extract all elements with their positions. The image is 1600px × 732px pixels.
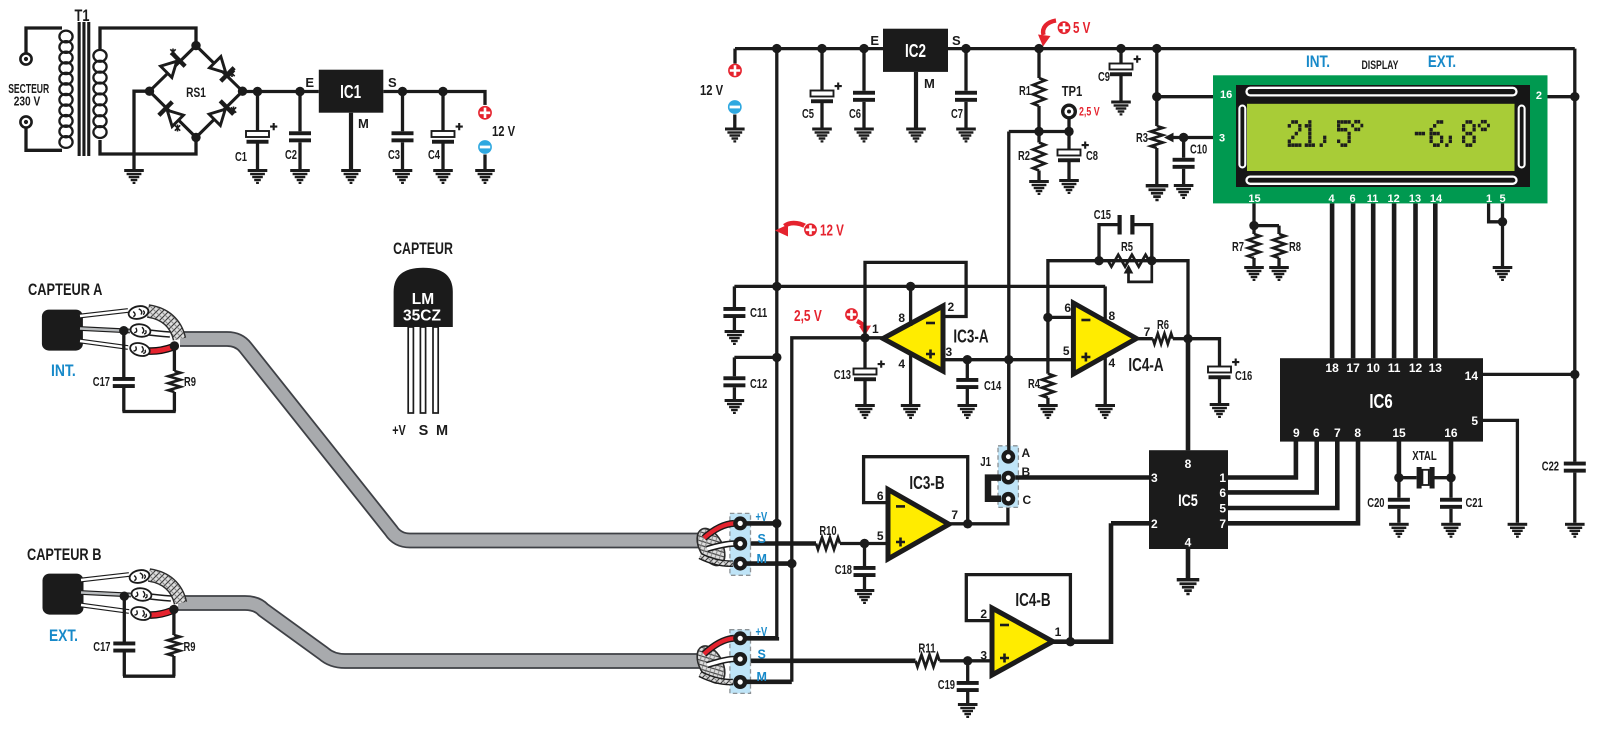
ground C18 [855,589,875,604]
jumper J1 block [998,446,1018,508]
ground C5 [812,128,832,143]
svg-text:C18: C18 [835,563,852,577]
wire terminal A M to M rail [740,561,792,566]
symbol +12V input [728,63,743,78]
svg-text:RS1: RS1 [186,85,206,100]
ground C8 [1059,179,1079,194]
wire terminal A +V to 12V rail [740,521,777,526]
wire C12 branch [734,356,776,359]
resistor R4 [1046,317,1049,373]
node R1 bottom [1034,127,1043,136]
svg-text:IC6: IC6 [1369,391,1392,413]
wire terminal B M to M rail [740,679,792,684]
cable sensor A [180,339,704,541]
wire top rail E-side [735,47,883,50]
capacitor C17 A [122,331,125,377]
svg-text:C17: C17 [93,375,110,389]
wire DC rail S-side [383,92,485,106]
ground R2 [1029,180,1049,195]
symbol plus 5V callout [1057,21,1071,35]
svg-text:M: M [436,423,448,439]
svg-text:J1: J1 [980,454,991,469]
svg-text:3: 3 [1219,133,1225,145]
ground C2 [290,169,310,184]
ground R3 [1146,184,1169,201]
svg-text:EXT.: EXT. [49,626,78,645]
svg-text:XTAL: XTAL [1412,449,1437,463]
svg-text:INT.: INT. [1306,53,1330,71]
svg-text:12 V: 12 V [820,223,844,240]
node C5 [817,44,826,53]
svg-text:1: 1 [1055,625,1062,639]
sensor A body [42,310,83,351]
node 12V branch [772,44,781,53]
svg-text:CAPTEUR B: CAPTEUR B [27,545,101,564]
ground C16 [1210,403,1230,418]
wire LCD pin14 to IC6 pin13 [1433,203,1438,358]
wire 2.5V reference line pin3-pin5 [943,358,1073,361]
wire top rail 5V side [948,47,1575,50]
wire J1-A from 2.5V [1007,360,1010,451]
cable A end shield braid [691,524,730,570]
cable B end shield braid [691,641,730,687]
wire IC3-B feedback loop [864,457,968,524]
J1 contact B [1001,471,1015,485]
wire LCD pin13 to IC6 pin12 [1413,203,1418,358]
sensor A wire red [148,347,173,351]
capacitor C20 [1397,478,1400,498]
node C9 [1116,44,1125,53]
sensor A leads [80,311,130,348]
resistor R2 [1037,132,1040,143]
wire IC4-A pin8 [1104,286,1107,322]
ground C9 [1111,101,1131,116]
svg-text:R4: R4 [1028,377,1040,391]
ground R7 [1244,266,1264,281]
wire sensor A signal line [747,541,816,546]
terminal A contact S [733,537,747,551]
svg-text:11: 11 [1388,361,1401,375]
wire IC5 pin2 [1111,521,1149,526]
sensor B leads [81,575,131,612]
capacitor C19 [966,661,969,681]
wire LCD pin12 to IC6 pin11 [1392,203,1397,358]
wire opamp V+ rail [734,285,1105,288]
svg-text:C9: C9 [1098,70,1110,84]
node C4 [438,87,447,96]
terminal mains bottom [20,116,31,127]
callout arrow 5V [1038,21,1056,47]
svg-text:E: E [305,75,314,90]
LCD reading 21,5 degrees [1288,120,1364,147]
svg-text:R1: R1 [1019,84,1031,98]
svg-text:C7: C7 [951,107,963,121]
regulator IC1 [319,70,384,113]
sensor A wire knots [127,304,151,358]
label LM 35CZ [403,291,441,325]
capacitor C7 [964,49,967,91]
ground 12V input [725,128,745,143]
op-amp IC3-B [888,489,949,559]
wire 12V minus to ground [483,155,486,170]
svg-text:M: M [757,670,767,684]
capacitor C2 [298,92,301,132]
terminal B contact +V [733,631,747,645]
svg-text:IC5: IC5 [1178,491,1198,510]
cable A wire to S [707,544,734,549]
svg-text:8: 8 [1354,426,1361,440]
node IC4-B output [1066,637,1075,646]
svg-text:16: 16 [1444,426,1458,440]
svg-text:IC4-B: IC4-B [1015,590,1050,610]
wire DC rail E-side [243,90,319,93]
wire IC6 pin5 to ground [1483,420,1517,522]
svg-text:S: S [419,423,429,439]
ground C4 [433,169,453,184]
wire IC5 pin1 to IC6 pin9 [1228,441,1296,477]
op-amp IC4-B [992,608,1053,675]
svg-text:5: 5 [1063,344,1070,358]
LM35CZ pins [408,327,438,413]
node bridge bottom [191,133,200,142]
svg-text:3: 3 [1151,471,1158,485]
svg-text:C10: C10 [1190,143,1207,157]
wire IC2 M [914,72,918,128]
wire 5V down to LCD pin16 [1155,49,1158,97]
ground C11 [725,330,745,345]
capacitor C16 [1208,359,1239,380]
svg-text:IC2: IC2 [905,41,926,61]
node R4 on pin6 stub [1043,313,1052,322]
wire IC4-B output [1053,523,1111,641]
capacitor C15 [1099,215,1152,261]
capacitor C11 [733,286,736,307]
ground C3 [393,169,413,184]
capacitor C1 [256,92,259,132]
ground C19 [958,703,978,718]
svg-text:2: 2 [980,607,987,621]
svg-text:9: 9 [1293,426,1300,440]
node bridge left [145,87,154,96]
wire LCD pin11 to IC6 pin10 [1371,203,1376,358]
node TP1 bottom [1064,127,1073,136]
svg-text:2,5 V: 2,5 V [794,308,822,325]
resistor R7 [1252,226,1255,234]
J1 contact C [1001,492,1015,506]
wire IC4-A pin6 stub [1048,316,1074,319]
svg-text:C21: C21 [1466,496,1483,510]
cable A wire to +V [704,523,734,538]
svg-text:S: S [758,648,766,662]
ground C7 [956,128,976,143]
wire primary bottom [26,128,62,151]
svg-text:R10: R10 [819,524,836,538]
terminal B contact S [733,652,747,666]
capacitor C14 [966,360,969,378]
node C19 [963,656,972,665]
svg-text:C12: C12 [750,377,767,391]
capacitor C5 [820,49,823,91]
svg-text:C22: C22 [1542,460,1559,474]
wire C17-R9 bottom A [123,410,176,413]
svg-text:5 V: 5 V [1073,20,1091,37]
wire IC4-A feedback line [1048,261,1188,451]
resistor R11 [916,655,940,667]
svg-text:R3: R3 [1136,131,1148,145]
svg-text:LM: LM [412,291,434,308]
svg-text:3: 3 [980,649,987,663]
cable A wire to M [700,556,733,564]
wire IC6 pin15 to crystal [1397,441,1402,478]
svg-text:4: 4 [898,357,905,371]
svg-text:S: S [388,75,397,90]
cable B wire to M [700,674,733,682]
svg-text:12 V: 12 V [700,82,723,99]
svg-text:IC1: IC1 [340,82,361,102]
wire terminal B +V to 12V rail [740,637,777,638]
svg-text:C16: C16 [1235,369,1252,383]
svg-text:C5: C5 [802,107,814,121]
svg-text:8: 8 [1109,309,1116,323]
svg-text:C: C [1023,493,1032,507]
svg-text:6: 6 [1219,486,1226,500]
regulator IC2 [883,29,948,72]
node R6 output [1183,334,1192,343]
callout arrow 12V [775,223,806,236]
wire sensor B signal line [747,658,916,663]
potentiometer R3 [1155,97,1158,126]
resistor R1 [1037,49,1040,78]
svg-text:12: 12 [1409,361,1423,375]
node sensor B C17 [120,592,129,601]
svg-text:R5: R5 [1121,240,1133,254]
bridge rectifier RS1 [150,46,243,138]
label SECTEUR 230 V [8,82,49,109]
ground C22 [1565,523,1585,538]
wire IC5 pin7 to IC6 pin8 [1228,441,1358,523]
node V+ rail on 12V rail [772,282,781,291]
wire primary top [26,28,62,53]
node XTAL right [1446,473,1455,482]
node bridge top [191,41,200,50]
svg-text:IC3-A: IC3-A [953,327,988,347]
svg-text:R11: R11 [918,642,935,656]
node IC3-A pin1 [860,333,869,342]
sensor B wire middle to braid [147,596,171,599]
label +V S M pins [392,423,448,439]
svg-text:C14: C14 [984,379,1001,393]
wire LCD pin1 to ground [1489,203,1503,221]
LCD display module [1213,75,1548,203]
terminal block B [730,630,751,694]
capacitor C18 [863,544,866,567]
svg-text:35CZ: 35CZ [403,308,441,325]
terminal block A [730,513,751,575]
capacitor C12 [733,357,736,376]
svg-text:12: 12 [1387,193,1399,205]
capacitor C4 [441,92,444,132]
svg-text:4: 4 [1328,193,1335,205]
sensor B body [43,574,84,615]
svg-text:C4: C4 [428,148,440,162]
svg-text:6: 6 [1313,426,1320,440]
svg-text:IC3-B: IC3-B [909,473,944,493]
svg-text:5: 5 [1499,193,1505,205]
node LCD pin16 junction [1152,92,1161,101]
capacitor C21 [1449,478,1452,498]
svg-text:13: 13 [1429,361,1443,375]
wire J1-B to IC5 pin3 [1015,475,1149,480]
svg-text:1: 1 [1486,193,1492,205]
wire IC4-A output [1136,337,1152,340]
svg-text:EXT.: EXT. [1428,53,1456,71]
symbol +12V output [478,105,493,120]
svg-text:+V: +V [392,423,406,439]
svg-text:C20: C20 [1367,496,1384,510]
node right rail pin14 [1570,370,1579,379]
svg-text:+V: +V [756,510,768,524]
svg-text:TP1: TP1 [1062,83,1083,100]
capacitor C9 [1119,49,1122,64]
LM35CZ package body [394,268,453,327]
node C14 [963,355,972,364]
wire IC6 pin16 to crystal [1449,441,1454,478]
cable sensor B [178,603,704,661]
ground C1 [248,169,268,184]
svg-text:R6: R6 [1157,318,1169,332]
capacitor C13 [863,338,866,369]
svg-text:M: M [358,116,369,131]
wire IC5 pin8 from R6 node [1186,339,1191,451]
wire 12V vertical rail [775,49,778,638]
svg-text:CAPTEUR A: CAPTEUR A [28,280,102,299]
node right rail pin2 [1570,92,1579,101]
node C12 on 12V rail [772,353,781,362]
svg-text:18: 18 [1325,361,1339,375]
wire LCD pin5 to ground [1501,203,1504,266]
ground 12V output [475,169,495,184]
svg-text:14: 14 [1430,193,1443,205]
cable B wire to +V [704,638,734,654]
svg-text:INT.: INT. [51,361,76,380]
wire divider node [1009,130,1069,133]
svg-text:C13: C13 [834,368,851,382]
node C18 [860,539,869,548]
node bridge right [238,87,247,96]
IC IC6 [1280,358,1483,441]
svg-text:4: 4 [1185,536,1192,550]
node R1 top [1034,44,1043,53]
ground C6 [854,128,874,143]
node XTAL left [1394,473,1403,482]
sensor A wire middle to braid [146,332,170,335]
svg-text:+V: +V [756,625,768,639]
node sensor A C17 [119,326,128,335]
wire IC5 pin6 to IC6 pin6 [1228,441,1317,492]
sensor B wire knots [128,568,152,622]
ground R8 [1269,266,1289,281]
callout arrow 2,5V [857,321,871,336]
LCD reading -6,8 degrees [1415,120,1490,147]
wire R8 branch [1254,224,1279,227]
svg-text:17: 17 [1346,361,1360,375]
svg-text:7: 7 [951,508,958,522]
terminal B contact M [733,675,747,689]
node IC3-A pin8 rail [906,282,915,291]
node +V A on 12V rail [772,519,781,528]
terminal A contact +V [733,516,747,530]
wire LCD pin15 down [1252,203,1255,225]
svg-text:8: 8 [898,311,905,325]
wire IC3-A pin4 to ground [909,352,912,404]
node C6 [859,44,868,53]
svg-text:C2: C2 [285,148,297,162]
IC IC5 [1149,450,1228,549]
node C10 [1179,133,1188,142]
resistor R9 A [173,346,176,371]
svg-text:12 V: 12 V [492,123,515,140]
wire LCD pin2 to right rail [1548,95,1575,98]
svg-text:S: S [758,532,766,546]
node J1-A branch [1004,355,1013,364]
wire 12V input minus to ground [733,115,736,128]
svg-text:R2: R2 [1018,149,1030,163]
wire 2.5V output line to M rail [792,338,883,682]
svg-text:5: 5 [1219,502,1226,516]
ground C14 [958,404,978,419]
svg-text:T1: T1 [75,6,90,25]
resistor R8 [1277,226,1280,234]
ground IC6 pin5 [1508,523,1528,538]
trimmer R5 [1108,255,1149,267]
svg-text:R7: R7 [1232,240,1244,254]
svg-text:7: 7 [1219,517,1226,531]
wire LCD pin4 to IC6 pin18 [1330,203,1335,358]
wire right vertical rail [1573,49,1576,462]
svg-text:2,5 V: 2,5 V [1079,107,1100,119]
capacitor C8 [1067,132,1070,150]
J1 shorting bracket [988,478,1001,499]
wire secondary bottom [100,139,196,154]
svg-text:S: S [952,33,961,48]
svg-text:C1: C1 [235,150,247,164]
wire C16 branch [1188,339,1220,367]
node LCD16 branch [1152,44,1161,53]
wire bridge minus to ground [134,91,150,169]
test point TP1 [1063,105,1076,118]
svg-text:M: M [924,76,935,91]
resistor R9 B [172,609,175,635]
node C15 right [1147,256,1156,265]
svg-text:5: 5 [1471,414,1478,428]
svg-text:CAPTEUR: CAPTEUR [393,240,453,258]
svg-text:C11: C11 [750,306,767,320]
crystal XTAL [1399,467,1451,489]
node IC3-B output [963,519,972,528]
wire IC5 pin4 to ground [1186,549,1191,578]
capacitor C10 [1182,138,1185,158]
node LCD pin1-5 [1498,217,1507,226]
svg-text:13: 13 [1409,193,1421,205]
node C3 [398,87,407,96]
sensor B shield braid [149,575,181,603]
ground IC2 M [906,128,926,143]
R3 wiper arrow [1164,133,1184,143]
svg-text:2: 2 [948,300,955,314]
ground C12 [725,399,745,414]
wire IC3-A pin8 [909,286,912,326]
op-amp IC3-A [883,306,943,371]
